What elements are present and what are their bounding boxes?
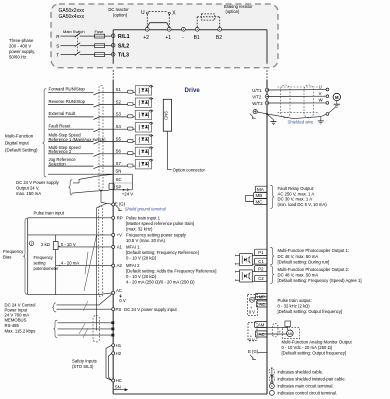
opto-isolator for S2 (135, 98, 151, 107)
svg-text:S3: S3 (116, 112, 122, 117)
svg-text:0 V: 0 V (249, 310, 255, 315)
svg-text:Fault Relay Output:: Fault Relay Output: (278, 186, 315, 191)
twisted pair slashes (84, 233, 97, 291)
option connector CN5 (163, 99, 171, 131)
braking resistor body (dashed rect) (202, 14, 215, 20)
control terminal PS (112, 308, 115, 311)
drive enclosure bottom edge (113, 393, 267, 395)
svg-text:HC: HC (116, 378, 122, 383)
pulse counter symbol (250, 297, 255, 302)
svg-text:AC: AC (259, 302, 265, 307)
switch mechanical link (dashed) (76, 35, 78, 54)
svg-text:0 - 10 V (20 kΩ): 0 - 10 V (20 kΩ) (126, 256, 157, 261)
opto-isolator for S6 (135, 147, 151, 156)
svg-text:AC: AC (116, 288, 122, 293)
control terminal +V (112, 233, 115, 236)
svg-text:[Default setting: During run]: [Default setting: During run] (278, 259, 330, 264)
main circuit terminal +2 (145, 27, 149, 31)
svg-text:Pulse train input: Pulse train input (34, 211, 65, 216)
svg-text:DC 30 V, max. 1 A: DC 30 V, max. 1 A (278, 197, 313, 202)
main circuit terminal - (182, 27, 186, 31)
potentiometer note circled 2 (29, 241, 34, 246)
svg-text:DC 24 V power supply input: DC 24 V power supply input (124, 307, 178, 312)
svg-text:(STO SIL3): (STO SIL3) (72, 364, 94, 369)
0V wire to AC (57, 304, 100, 306)
photocoupler 1 brace (270, 247, 274, 265)
svg-text:C2: C2 (258, 276, 264, 281)
svg-text:Option connector: Option connector (173, 167, 206, 172)
svg-text:MEMOBUS: MEMOBUS (5, 318, 27, 323)
svg-text:setting: setting (34, 261, 47, 266)
opto-isolator for S4 (135, 123, 151, 132)
shielded cable run (analog inputs, dashed capsule) (99, 206, 103, 297)
meter shunt box (285, 321, 291, 327)
terminal AC (pulse) (256, 301, 267, 307)
svg-text:Multi-Function Analog Monitor: Multi-Function Analog Monitor Output (282, 339, 353, 344)
digital input group brace (43, 89, 47, 178)
svg-text:Multi-Function Photocoupler Ou: Multi-Function Photocoupler Output 2: (278, 267, 350, 272)
MP wire (254, 297, 255, 298)
svg-text:AM: AM (287, 332, 292, 336)
svg-text:Digital Input: Digital Input (5, 141, 30, 146)
SN-SC-SP wiring loop (131, 174, 133, 190)
svg-text:DC reactor: DC reactor (108, 7, 129, 12)
svg-text:Multi-Function: Multi-Function (5, 133, 34, 138)
photocoupler output 1 load box (240, 254, 253, 266)
terminal plug (128, 164, 133, 167)
svg-text:[Default setting: Output frequ: [Default setting: Output frequency] (282, 351, 347, 356)
shield drain wire to E(G) (101, 202, 112, 204)
svg-text:indicates main circuit termina: indicates main circuit terminal. (278, 384, 334, 389)
main circuit terminal +1 (167, 27, 171, 31)
svg-text:2 kΩ: 2 kΩ (41, 242, 50, 247)
control terminal E(G) (112, 203, 115, 206)
svg-text:MFAI 1: MFAI 1 (126, 245, 140, 250)
safety jumper H2-HC (108, 353, 111, 380)
svg-text:AC: AC (259, 332, 265, 337)
svg-text:A2: A2 (117, 263, 123, 268)
svg-text:H2: H2 (116, 351, 122, 356)
terminal plug (128, 90, 133, 93)
svg-text:E (G): E (G) (248, 349, 259, 354)
24V supply connector brace (69, 180, 73, 195)
P2 wire (252, 271, 267, 273)
safety input terminal HC (112, 379, 115, 382)
svg-text:DC 48 V, max. 50 mA: DC 48 V, max. 50 mA (278, 272, 319, 277)
svg-text:W: W (319, 98, 323, 103)
svg-text:(max. 32 kHz): (max. 32 kHz) (126, 226, 153, 231)
svg-text:T/L3: T/L3 (118, 53, 129, 59)
svg-text:SN: SN (115, 385, 121, 390)
photocoupler 2 brace (270, 266, 274, 284)
svg-text:(min. load DC 5 V, 10 mA): (min. load DC 5 V, 10 mA) (278, 202, 328, 207)
shield drain ground 2 (320, 117, 322, 121)
motor wires U V W (267, 89, 326, 91)
terminal C1 (255, 258, 267, 264)
main-circuit dashed enclosure (51, 4, 278, 68)
svg-text:+V: +V (117, 233, 123, 238)
svg-text:(option): (option) (226, 9, 241, 14)
svg-text:[Default setting: Output frequ: [Default setting: Output frequency] (278, 309, 343, 314)
svg-text:0 - 10 V (20 kΩ): 0 - 10 V (20 kΩ) (126, 274, 157, 279)
legend: main circuit terminal symbol (270, 384, 275, 389)
svg-text:Multi-Function Photocoupler Ou: Multi-Function Photocoupler Output 1: (278, 248, 350, 253)
shield drain vertical to lower shield (96, 208, 98, 331)
svg-text:indicates control circuit term: indicates control circuit terminal. (278, 390, 338, 395)
drive left edge continuation dots (112, 71, 114, 80)
main circuit terminal B1 (195, 27, 199, 31)
opto-isolator for S1 (135, 86, 151, 95)
terminal C2 (255, 275, 267, 281)
MEMOBUS shield capsule (93, 316, 99, 343)
pulse monitor load box (dashed) (247, 295, 257, 316)
svg-text:Drive: Drive (185, 87, 201, 94)
opto-isolator for S7 (135, 160, 151, 169)
svg-text:AM: AM (258, 322, 265, 327)
svg-text:A1: A1 (117, 245, 123, 250)
svg-text:RP: RP (117, 215, 123, 220)
svg-text:B1: B1 (194, 35, 200, 41)
C1 wire (252, 263, 267, 265)
svg-text:potentiometer: potentiometer (34, 266, 60, 271)
svg-text:Shield ground terminal: Shield ground terminal (125, 206, 166, 211)
terminal plug (128, 115, 133, 118)
terminal plug (128, 103, 133, 106)
AC wire (monitor) (257, 333, 287, 335)
svg-text:Pulse train output:: Pulse train output: (278, 298, 312, 303)
+24 V marker (123, 189, 125, 191)
legend: control circuit terminal symbol (270, 391, 275, 396)
svg-text:Fuse: Fuse (95, 29, 105, 34)
svg-text:indicates shielded cable.: indicates shielded cable. (278, 369, 324, 374)
analog monitor source box (dashed) (248, 323, 257, 341)
svg-text:W/T3: W/T3 (252, 101, 263, 106)
motor terminals (326, 88, 329, 91)
svg-text:200 - 400 V: 200 - 400 V (9, 44, 31, 49)
svg-text:DC 48 V, max. 50 mA: DC 48 V, max. 50 mA (278, 254, 319, 259)
legend: twisted-pair symbol (271, 375, 273, 384)
svg-text:RS-485: RS-485 (5, 323, 20, 328)
control terminal A1 (112, 245, 115, 248)
relay terminal MC (254, 199, 267, 205)
svg-text:P1: P1 (258, 250, 264, 255)
opto-isolator for S3 (135, 110, 151, 119)
svg-text:MP: MP (259, 294, 266, 299)
svg-text:indicates shielded twisted-pai: indicates shielded twisted-pair cable. (278, 377, 346, 382)
svg-text:Fault Reset: Fault Reset (49, 123, 72, 128)
safety input terminal H2 (112, 352, 115, 355)
svg-text:C1: C1 (258, 259, 264, 264)
svg-text:4 - 20 mA (250 Ω)/0 - 20 mA (2: 4 - 20 mA (250 Ω)/0 - 20 mA (250 Ω) (126, 280, 195, 285)
drive right edge continuation dots (266, 71, 268, 80)
svg-text:V: V (319, 91, 322, 96)
svg-text:S4: S4 (116, 124, 122, 129)
MEMOBUS wires (58, 322, 112, 324)
svg-text:V/T2: V/T2 (252, 94, 262, 99)
motor (333, 93, 340, 100)
svg-text:S6: S6 (116, 149, 122, 154)
svg-text:(option): (option) (113, 12, 128, 17)
photocoupler output 2 load box (240, 270, 253, 282)
svg-text:SC: SC (116, 177, 122, 182)
shield drain wire down (100, 191, 102, 203)
legend: shielded cable symbol (271, 367, 273, 377)
svg-text:P2: P2 (258, 267, 264, 272)
svg-text:Forward RUN/Stop: Forward RUN/Stop (49, 87, 86, 92)
DC reactor dashed risers (146, 14, 148, 27)
svg-text:[Default setting: Adds the Fre: [Default setting: Adds the Frequency Ref… (126, 269, 216, 274)
relay terminal MB (254, 193, 267, 199)
shielded cable run (digital inputs, dashed capsule) (99, 85, 103, 190)
svg-text:MB: MB (256, 193, 263, 198)
+V wire (28, 234, 112, 236)
svg-text:U: U (319, 85, 322, 90)
svg-text:AC 250 V, max. 1 A: AC 250 V, max. 1 A (278, 191, 315, 196)
AM wire (257, 327, 288, 329)
terminal P2 (255, 266, 267, 272)
svg-text:U: U (141, 10, 145, 16)
terminal AC (monitor) (255, 331, 267, 337)
monitor shield capsule (272, 324, 278, 337)
control terminal AC (112, 291, 115, 294)
svg-text:+2: +2 (143, 35, 149, 41)
svg-text:S5: S5 (116, 136, 122, 141)
svg-text:MA: MA (257, 187, 264, 192)
sink/source jumper plug (109, 183, 114, 189)
svg-text:M: M (335, 95, 339, 100)
svg-text:SP: SP (116, 185, 122, 190)
svg-text:MFAI 2: MFAI 2 (126, 263, 140, 268)
+1/+2 jumper bar (147, 23, 169, 28)
control terminal RP (112, 216, 115, 219)
shield drain to ground 1 (267, 114, 274, 120)
motor ground link (329, 107, 337, 114)
terminal AM (255, 322, 267, 328)
external meter dashed box (283, 328, 300, 339)
svg-text:power supply,: power supply, (9, 49, 35, 54)
svg-text:SN: SN (115, 168, 121, 173)
svg-text:0 V: 0 V (119, 298, 126, 303)
svg-text:+24 V: +24 V (122, 192, 133, 197)
svg-text:0 - 32 kHz (2 kΩ): 0 - 32 kHz (2 kΩ) (278, 304, 311, 309)
twist slashes (79, 323, 86, 335)
svg-text:External Fault: External Fault (49, 111, 76, 116)
svg-text:GA50x4xxx: GA50x4xxx (59, 14, 85, 20)
fault relay brace (270, 185, 274, 208)
svg-text:Frequency: Frequency (3, 249, 24, 254)
svg-text:Main Switch: Main Switch (63, 29, 85, 34)
main circuit terminal B2 (218, 27, 222, 31)
main circuit terminal T/L3 (111, 53, 115, 57)
relay terminal MA (255, 186, 267, 192)
svg-text:+1: +1 (165, 35, 171, 41)
terminal P1 (255, 249, 267, 255)
svg-text:Max. 115.2 kbps: Max. 115.2 kbps (5, 329, 36, 334)
svg-text:0 - 10 V: 0 - 10 V (61, 242, 76, 247)
svg-text:Pulse train input 1: Pulse train input 1 (126, 215, 161, 220)
svg-text:Reverse RUN/Stop: Reverse RUN/Stop (49, 99, 86, 104)
drive enclosure right edge lower (266, 80, 268, 395)
control power brace (52, 303, 56, 312)
AC wire (pulse) (258, 303, 267, 305)
main circuit terminal R/L1 (111, 34, 115, 38)
drive grounding terminal (253, 110, 257, 114)
svg-text:0 - 10 Vdc - 20 mA (250 Ω): 0 - 10 Vdc - 20 mA (250 Ω) (282, 345, 333, 350)
svg-text:Safety Inputs: Safety Inputs (72, 358, 97, 363)
svg-text:T: T (56, 53, 59, 58)
safety input terminal H1 (112, 344, 115, 347)
input terminal bus wire (112, 36, 114, 64)
digital input common SN wire (48, 173, 132, 175)
svg-text:Bias: Bias (3, 255, 11, 260)
ground junction on edge (266, 113, 268, 115)
svg-text:Frequency setting power supply: Frequency setting power supply (126, 233, 187, 238)
svg-text:S2: S2 (116, 99, 122, 104)
A1 wire (0-10V) (59, 246, 61, 248)
svg-text:[Default setting: Frequency Re: [Default setting: Frequency Reference] (126, 250, 199, 255)
svg-text:[Default setting: Frequency (S: [Default setting: Frequency (Speed) Agre… (278, 278, 362, 283)
drive enclosure right edge upper (266, 30, 268, 64)
control terminal A2 (112, 264, 115, 267)
shield drain wire to motor ground (267, 114, 326, 119)
frequency meter AM (287, 330, 294, 337)
A2 wire (4-20mA) (56, 265, 112, 267)
svg-text:50/60 Hz: 50/60 Hz (9, 55, 26, 60)
braking resistor dashed connection (196, 17, 198, 27)
svg-text:[Master speed reference pulse: [Master speed reference pulse train] (126, 221, 194, 226)
svg-text:Shielded wire: Shielded wire (288, 120, 314, 125)
relay contact wire (246, 195, 254, 201)
svg-text:CN5: CN5 (164, 111, 169, 120)
svg-text:U/T1: U/T1 (252, 88, 262, 93)
shield ground symbol (116, 206, 122, 211)
motor cable shield tube (278, 86, 319, 88)
drive enclosure top edge (113, 29, 267, 31)
svg-text:H1: H1 (116, 343, 122, 348)
P1 wire (252, 254, 267, 256)
svg-text:Three-phase: Three-phase (9, 38, 34, 43)
C2 wire (252, 280, 267, 282)
svg-text:PS: PS (116, 307, 122, 312)
svg-text:Frequency: Frequency (34, 255, 54, 260)
svg-text:R/L1: R/L1 (118, 34, 130, 40)
svg-text:10.5 V (max. 20 mA): 10.5 V (max. 20 mA) (126, 238, 166, 243)
frequency bias brace (23, 218, 27, 294)
external circuit rail (27, 218, 29, 295)
terminal plug (128, 127, 133, 130)
svg-text:max. 150 mA: max. 150 mA (16, 191, 41, 196)
AC (analog common) wire (28, 293, 112, 295)
svg-text:S7: S7 (116, 161, 122, 166)
svg-text:4 - 20 mA: 4 - 20 mA (61, 261, 80, 266)
RP wire (28, 217, 112, 219)
shield drain junction (100, 190, 102, 192)
twist slash (83, 301, 88, 311)
main circuit terminal S/L2 (111, 44, 115, 48)
svg-text:GA50x2xxx: GA50x2xxx (59, 8, 85, 14)
svg-text:B2: B2 (216, 35, 222, 41)
24V supply wires (73, 174, 112, 183)
PS wire (57, 308, 112, 310)
drive enclosure left edge lower (112, 80, 114, 395)
motor ground (336, 101, 338, 105)
terminal plug (128, 152, 133, 155)
svg-text:0 V: 0 V (249, 338, 255, 343)
MEMOBUS brace (53, 320, 57, 337)
opto-isolator for S5 (135, 135, 151, 144)
svg-text:S: S (56, 44, 59, 49)
svg-text:Output 24 V,: Output 24 V, (16, 186, 39, 191)
safety jumper H1-HC (106, 345, 112, 380)
terminal plug (128, 139, 133, 142)
svg-text:MC: MC (256, 199, 264, 204)
drive enclosure left edge upper (112, 30, 114, 36)
svg-text:S/L2: S/L2 (118, 44, 129, 50)
svg-text:(Default Setting): (Default Setting) (5, 148, 38, 153)
motor cable shield hoop 1 (281, 85, 291, 118)
DC reactor coil (dashed) (149, 11, 168, 13)
terminal MP (255, 293, 267, 299)
svg-text:DC 24 V Power supply: DC 24 V Power supply (16, 180, 60, 185)
svg-text:S1: S1 (116, 87, 122, 92)
frequency setting potentiometer (55, 235, 57, 242)
motor cable shield hoop 2 (304, 85, 314, 118)
CN5 wire (168, 131, 172, 169)
svg-text:2: 2 (31, 242, 33, 246)
